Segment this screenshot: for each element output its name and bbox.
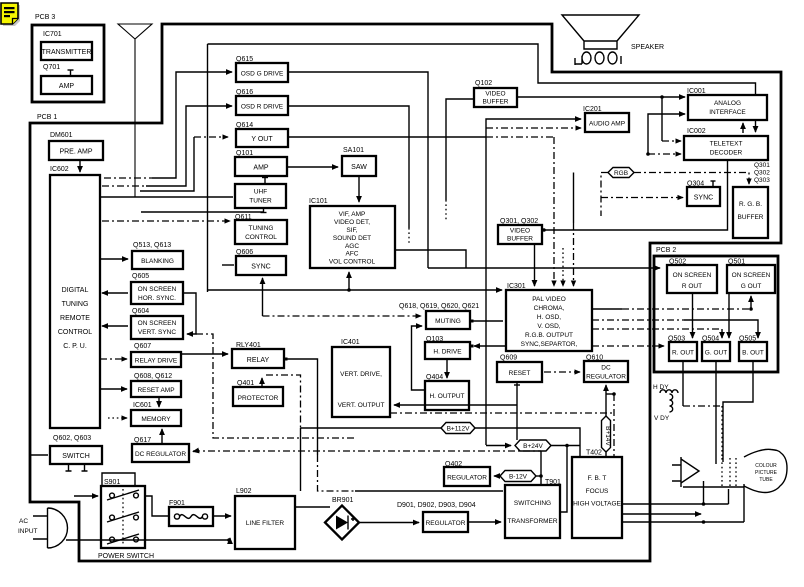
svg-text:SWITCH: SWITCH xyxy=(62,453,90,460)
svg-text:IC601: IC601 xyxy=(133,402,152,409)
wire staircase osd-r xyxy=(102,185,146,187)
svg-text:RELAY: RELAY xyxy=(247,357,270,364)
wire analog-teletext stub xyxy=(755,120,757,132)
AC input connector xyxy=(48,508,68,548)
svg-text:DC: DC xyxy=(601,365,611,372)
switch stubs xyxy=(66,464,88,471)
g out box xyxy=(702,342,730,361)
wire vert sync to vert drive xyxy=(196,334,354,438)
svg-text:AGC: AGC xyxy=(345,243,359,250)
svg-text:DIGITAL: DIGITAL xyxy=(62,287,89,294)
wire rgb left dash xyxy=(601,173,608,217)
svg-text:SPEAKER: SPEAKER xyxy=(631,44,664,51)
svg-text:Q602, Q603: Q602, Q603 xyxy=(53,435,91,442)
wire video buffer input xyxy=(446,99,474,200)
svg-text:B+14V: B+14V xyxy=(604,426,611,446)
svg-text:R.G.B. OUTPUT: R.G.B. OUTPUT xyxy=(525,332,573,339)
memory box xyxy=(131,410,181,426)
analog interface box xyxy=(688,95,767,120)
svg-text:AC: AC xyxy=(19,518,28,525)
fbt box xyxy=(572,457,622,538)
wire ic101 bottom xyxy=(348,272,350,290)
svg-text:VERT. OUTPUT: VERT. OUTPUT xyxy=(338,402,385,409)
svg-text:IC002: IC002 xyxy=(687,128,706,135)
svg-text:B+112V: B+112V xyxy=(447,426,470,433)
wire x486 audio riser xyxy=(486,119,581,445)
on screen vert sync box xyxy=(131,316,183,339)
relay box xyxy=(232,349,284,368)
transmitter box xyxy=(41,42,92,60)
wire dcreg-memory xyxy=(161,429,163,444)
svg-text:AFC: AFC xyxy=(346,251,359,258)
svg-text:Q618, Q619, Q620, Q621: Q618, Q619, Q620, Q621 xyxy=(399,303,479,310)
svg-text:BR901: BR901 xyxy=(332,497,354,504)
svg-text:AMP: AMP xyxy=(59,83,75,90)
wire muting to pal xyxy=(472,320,503,322)
svg-text:REGULATOR: REGULATOR xyxy=(447,475,487,482)
wire staircase osd-g xyxy=(104,177,152,179)
svg-text:ON SCREEN: ON SCREEN xyxy=(673,272,712,279)
svg-text:RELAY DRIVE: RELAY DRIVE xyxy=(135,358,178,365)
wire rgb to sync Q304 xyxy=(601,197,683,199)
wire pal y320 to b out xyxy=(592,319,684,321)
svg-text:Q102: Q102 xyxy=(475,80,492,87)
sync box Q606 xyxy=(236,256,286,275)
switching transformer box xyxy=(505,485,560,538)
svg-text:Q302: Q302 xyxy=(754,170,770,177)
y out box xyxy=(236,129,288,147)
svg-text:SYNC: SYNC xyxy=(694,195,713,202)
speaker xyxy=(562,15,639,49)
B-12V flag xyxy=(500,471,536,482)
wire bridge to regulator xyxy=(359,522,419,524)
vert drive/output block xyxy=(332,347,390,417)
svg-text:ON SCREEN: ON SCREEN xyxy=(138,286,177,293)
sync box Q304 xyxy=(687,187,720,206)
svg-text:BUFFER: BUFFER xyxy=(483,99,509,106)
svg-text:R OUT: R OUT xyxy=(682,283,702,290)
svg-text:V DY: V DY xyxy=(654,415,670,422)
wire cpu-reset amp xyxy=(100,388,127,390)
wire osd-r out xyxy=(288,106,409,228)
regulator box Q402 xyxy=(444,467,490,486)
wire b out down xyxy=(723,361,753,462)
svg-text:D901, D902, D903, D904: D901, D902, D903, D904 xyxy=(397,502,476,509)
svg-text:SIF,: SIF, xyxy=(346,227,357,234)
svg-text:VIF, AMP: VIF, AMP xyxy=(339,211,366,218)
svg-text:DECODER: DECODER xyxy=(710,150,743,157)
wire relay drive to relay xyxy=(181,353,228,355)
svg-text:HOR. SYNC.: HOR. SYNC. xyxy=(138,295,176,302)
on screen g out box xyxy=(727,265,775,293)
svg-text:TUNING: TUNING xyxy=(62,301,89,308)
electron gun xyxy=(680,457,682,487)
svg-text:ANALOG: ANALOG xyxy=(714,100,741,107)
wire y-out out xyxy=(288,136,486,138)
wire into vert block xyxy=(394,404,517,406)
saw box xyxy=(342,156,376,176)
blanking box xyxy=(132,251,183,269)
svg-text:IC101: IC101 xyxy=(309,198,328,205)
dc regulator feed dashed long xyxy=(193,450,541,452)
wire dc reg2 bottom xyxy=(605,385,607,394)
dc regulator box xyxy=(132,444,189,462)
svg-text:INTERFACE: INTERFACE xyxy=(709,109,746,116)
svg-text:REGULATOR: REGULATOR xyxy=(586,374,626,381)
wire fuse to line filter xyxy=(213,515,231,517)
svg-text:ON SCREEN: ON SCREEN xyxy=(138,320,177,327)
wire protector stub b112 xyxy=(261,378,263,387)
wire teletext bottom to video buffer2 xyxy=(545,160,728,230)
wire line filter to bridge xyxy=(295,506,330,508)
wire g out down xyxy=(715,361,717,464)
regulator box 901 xyxy=(423,512,468,532)
osd r drive box xyxy=(236,96,288,115)
svg-text:TELETEXT: TELETEXT xyxy=(710,141,743,148)
wire analog pin2 / teletext pin2 xyxy=(648,114,685,154)
wire hor sync left xyxy=(102,292,128,294)
wire audio amp pin2 xyxy=(486,127,581,129)
svg-text:MUTING: MUTING xyxy=(435,318,461,325)
svg-text:C. P. U.: C. P. U. xyxy=(63,343,87,350)
wire video buffer to analog interface xyxy=(517,96,685,98)
wire h output to muting xyxy=(412,326,426,390)
svg-text:BUFFER: BUFFER xyxy=(507,236,533,243)
wire relay out xyxy=(286,359,318,455)
svg-text:SOUND DET: SOUND DET xyxy=(333,235,371,242)
wire amp-tuner stub xyxy=(264,178,266,184)
wire osd-g out xyxy=(288,72,428,268)
svg-text:Q608, Q612: Q608, Q612 xyxy=(134,373,172,380)
svg-text:TUNING: TUNING xyxy=(249,225,274,232)
svg-text:OSD R DRIVE: OSD R DRIVE xyxy=(241,104,284,111)
svg-text:R. OUT: R. OUT xyxy=(672,350,694,357)
svg-text:LINE FILTER: LINE FILTER xyxy=(246,520,284,527)
relay drive box xyxy=(131,352,181,367)
osd g drive box xyxy=(236,63,288,82)
wire vert sync left xyxy=(102,325,128,327)
wire rgb right to rgb buffer xyxy=(634,173,749,185)
svg-text:B. OUT: B. OUT xyxy=(742,350,764,357)
wire cpu-tuner xyxy=(100,196,233,198)
power switch box xyxy=(101,486,145,548)
h output box xyxy=(425,381,469,410)
v yoke coil xyxy=(670,394,673,412)
wire gun cathode to fbt line xyxy=(703,481,705,504)
svg-text:REGULATOR: REGULATOR xyxy=(426,520,466,527)
wire ic101 out xyxy=(395,250,466,268)
svg-text:DC REGULATOR: DC REGULATOR xyxy=(135,451,186,458)
wire gun bottom rail xyxy=(683,486,744,488)
svg-text:VERT. SYNC: VERT. SYNC xyxy=(138,329,176,336)
fbt output 1 xyxy=(622,503,729,505)
wire x563 to pal xyxy=(562,248,564,286)
svg-text:T402: T402 xyxy=(586,450,602,457)
wire reset bottom to B+24V xyxy=(516,382,518,385)
svg-text:PCB 3: PCB 3 xyxy=(35,14,55,21)
wire tuner bottom xyxy=(141,209,264,213)
wire top data to ic001/ic002 xyxy=(208,44,756,95)
svg-text:PRE. AMP: PRE. AMP xyxy=(59,149,92,156)
wire reset to dc regulator2 xyxy=(544,371,580,373)
wire B+24V to fbt xyxy=(551,445,580,447)
svg-text:Y OUT: Y OUT xyxy=(251,136,273,143)
svg-text:PCB 1: PCB 1 xyxy=(37,114,57,121)
wire long y290 to pal xyxy=(208,289,503,291)
svg-text:PCB 2: PCB 2 xyxy=(656,247,676,254)
b out box xyxy=(739,342,767,361)
antenna xyxy=(118,24,152,197)
wire ac to switch top xyxy=(74,495,98,497)
svg-text:Q301: Q301 xyxy=(754,162,770,169)
amp box Q101 xyxy=(235,157,287,176)
wire amp-transmitter xyxy=(70,70,72,76)
svg-text:R. G. B.: R. G. B. xyxy=(739,201,762,208)
protector box xyxy=(233,387,283,406)
svg-text:IC602: IC602 xyxy=(50,166,69,173)
svg-text:Q513, Q613: Q513, Q613 xyxy=(133,242,171,249)
fbt output 2 xyxy=(622,513,701,515)
PCB 3 box xyxy=(32,25,104,102)
bridge rectifier BR901 xyxy=(325,506,359,540)
fbt output 3 xyxy=(622,521,744,523)
svg-text:RGB: RGB xyxy=(614,170,628,177)
wire preamp-cpu xyxy=(79,160,81,172)
wire osd r out down xyxy=(692,293,694,338)
ic101 block xyxy=(310,206,395,268)
pre-amp box xyxy=(49,141,103,160)
B+112V line xyxy=(301,427,442,429)
wire saw-ic101 xyxy=(358,176,360,202)
svg-text:RESET AMP: RESET AMP xyxy=(137,387,174,394)
tuning control box xyxy=(235,220,287,244)
svg-text:PAL VIDEO: PAL VIDEO xyxy=(532,296,566,303)
svg-text:MEMORY: MEMORY xyxy=(141,416,171,423)
svg-text:HIGH VOLTAGE: HIGH VOLTAGE xyxy=(573,501,621,508)
wire y268 to on screen r out xyxy=(428,267,660,269)
wire r out down dash xyxy=(682,361,684,406)
svg-text:UHF: UHF xyxy=(254,189,267,196)
wire cpu-tuning control xyxy=(102,220,230,222)
svg-text:VOL CONTROL: VOL CONTROL xyxy=(329,259,376,266)
wire regulator to transformer xyxy=(468,521,501,523)
svg-text:VIDEO: VIDEO xyxy=(510,228,530,235)
svg-text:B+24V: B+24V xyxy=(523,443,543,450)
svg-text:SA101: SA101 xyxy=(343,147,364,154)
svg-text:IC701: IC701 xyxy=(43,31,62,38)
wire switch left xyxy=(30,454,48,456)
svg-text:VIDEO: VIDEO xyxy=(485,91,505,98)
wire vert block dashed out xyxy=(390,412,614,414)
svg-text:INPUT: INPUT xyxy=(18,528,38,535)
wire pal y346 to r out xyxy=(592,345,664,347)
wire cpu-memory xyxy=(108,417,127,419)
svg-text:H. OSD,: H. OSD, xyxy=(537,314,561,321)
wire to teletext pin1 xyxy=(661,97,663,141)
svg-text:Q607: Q607 xyxy=(134,343,151,350)
reset box xyxy=(497,362,542,382)
B+24V flag xyxy=(515,440,551,451)
CPU block IC602 xyxy=(50,175,100,428)
svg-text:Q605: Q605 xyxy=(132,273,149,280)
wire staircase y-out xyxy=(140,137,194,191)
wire resetamp-memory xyxy=(158,397,160,407)
svg-text:Q604: Q604 xyxy=(132,308,149,315)
svg-text:SWITCHING: SWITCHING xyxy=(514,500,551,507)
B+ vertical flag xyxy=(602,416,611,452)
svg-text:H. OUTPUT: H. OUTPUT xyxy=(429,393,464,400)
svg-text:BUFFER: BUFFER xyxy=(738,214,764,221)
wire dashed to fbt xyxy=(613,394,615,456)
wire to regulator Q402 xyxy=(536,475,541,477)
svg-text:G OUT: G OUT xyxy=(741,283,762,290)
on screen r out box xyxy=(667,265,717,293)
wire ac bottom to line filter xyxy=(66,538,230,540)
reset amp box xyxy=(131,381,181,397)
video buffer box Q102 xyxy=(474,88,517,107)
amp box xyxy=(41,76,92,94)
svg-text:Q701: Q701 xyxy=(43,64,60,71)
teletext decoder box xyxy=(684,136,768,160)
line filter box xyxy=(235,496,295,549)
svg-text:PICTURE: PICTURE xyxy=(755,470,778,476)
wire switch to fuse xyxy=(145,496,169,516)
B+112V flag xyxy=(441,423,475,434)
svg-text:IC401: IC401 xyxy=(341,339,360,346)
svg-text:CHROMA,: CHROMA, xyxy=(534,305,565,312)
r out box xyxy=(669,342,697,361)
svg-text:TUBE: TUBE xyxy=(759,477,773,483)
on screen hor sync box xyxy=(131,282,183,304)
sync q304 top stub xyxy=(712,181,714,187)
svg-text:BLANKING: BLANKING xyxy=(141,258,174,265)
svg-text:POWER SWITCH: POWER SWITCH xyxy=(98,553,154,560)
wire x573 rgb to pal xyxy=(573,173,575,224)
wire transformer out right xyxy=(560,446,567,513)
switch box xyxy=(50,446,102,464)
wire sync bottom to muting xyxy=(262,278,264,316)
svg-text:REMOTE: REMOTE xyxy=(60,315,90,322)
svg-text:VIDEO DET,: VIDEO DET, xyxy=(334,219,370,226)
audio amp box xyxy=(585,113,629,132)
wire hor sync right xyxy=(183,293,196,334)
svg-text:AUDIO AMP: AUDIO AMP xyxy=(589,121,625,128)
pal block xyxy=(506,290,592,351)
uhf tuner box xyxy=(235,184,286,208)
svg-text:OSD G DRIVE: OSD G DRIVE xyxy=(241,71,284,78)
wire x554 to pal xyxy=(553,137,555,286)
crt outline xyxy=(744,449,787,492)
svg-text:AMP: AMP xyxy=(253,165,269,172)
svg-text:PROTECTOR: PROTECTOR xyxy=(238,395,279,402)
svg-text:G. OUT: G. OUT xyxy=(705,350,727,357)
svg-text:CONTROL: CONTROL xyxy=(58,329,92,336)
wire x486 to B+24V xyxy=(486,445,511,447)
wire h drive to h output xyxy=(446,359,448,378)
svg-text:DM601: DM601 xyxy=(50,132,73,139)
svg-text:F. B. T: F. B. T xyxy=(588,475,607,482)
svg-text:FOCUS: FOCUS xyxy=(586,488,609,495)
fuse box xyxy=(169,507,213,526)
svg-text:COLOUR: COLOUR xyxy=(755,463,777,469)
note icon xyxy=(1,3,20,26)
wire sync left stub xyxy=(222,264,234,266)
svg-text:CONTROL: CONTROL xyxy=(245,234,277,241)
wire transformer riser xyxy=(540,451,542,486)
svg-text:TUNER: TUNER xyxy=(249,198,272,205)
svg-text:B-12V: B-12V xyxy=(509,474,528,481)
wire osd g out down xyxy=(728,293,730,338)
PCB 2 box xyxy=(654,256,778,372)
svg-text:Q303: Q303 xyxy=(754,177,770,184)
video buffer box 2 xyxy=(498,225,542,244)
muting box xyxy=(426,311,470,329)
rgb buffer box xyxy=(733,187,768,238)
svg-text:TRANSFORMER: TRANSFORMER xyxy=(507,518,558,525)
svg-text:SYNC: SYNC xyxy=(251,264,270,271)
dc regulator box 2 xyxy=(584,361,628,382)
power switch bracket xyxy=(102,473,135,486)
svg-text:ON SCREEN: ON SCREEN xyxy=(732,272,771,279)
wire pal y329 to g out xyxy=(592,328,722,330)
wire amp-saw xyxy=(287,166,338,168)
wire cpu-relay drive xyxy=(100,358,127,360)
svg-text:V. OSD,: V. OSD, xyxy=(537,323,560,330)
svg-text:SAW: SAW xyxy=(351,164,367,171)
svg-text:VERT. DRIVE,: VERT. DRIVE, xyxy=(340,371,382,378)
svg-text:L902: L902 xyxy=(236,488,252,495)
h drive box xyxy=(425,342,470,359)
wire pal to h drive xyxy=(474,345,506,347)
svg-text:Q609: Q609 xyxy=(500,355,517,362)
RGB flag xyxy=(608,168,634,178)
crt base dotted pins xyxy=(730,458,736,487)
wire teletext-analog stub xyxy=(742,123,744,133)
wire video buffer2 to pal xyxy=(534,244,536,286)
wire pal y309 to osd g out xyxy=(592,308,622,310)
svg-text:SYNC,SEPARTOR,: SYNC,SEPARTOR, xyxy=(521,341,578,348)
svg-text:H. DRIVE: H. DRIVE xyxy=(433,349,462,356)
svg-text:TRANSMITTER: TRANSMITTER xyxy=(42,49,92,56)
wire vertical x207 xyxy=(207,44,209,292)
wire cpu-blanking xyxy=(100,258,128,260)
svg-text:RESET: RESET xyxy=(509,370,531,377)
h yoke coil xyxy=(660,390,678,393)
